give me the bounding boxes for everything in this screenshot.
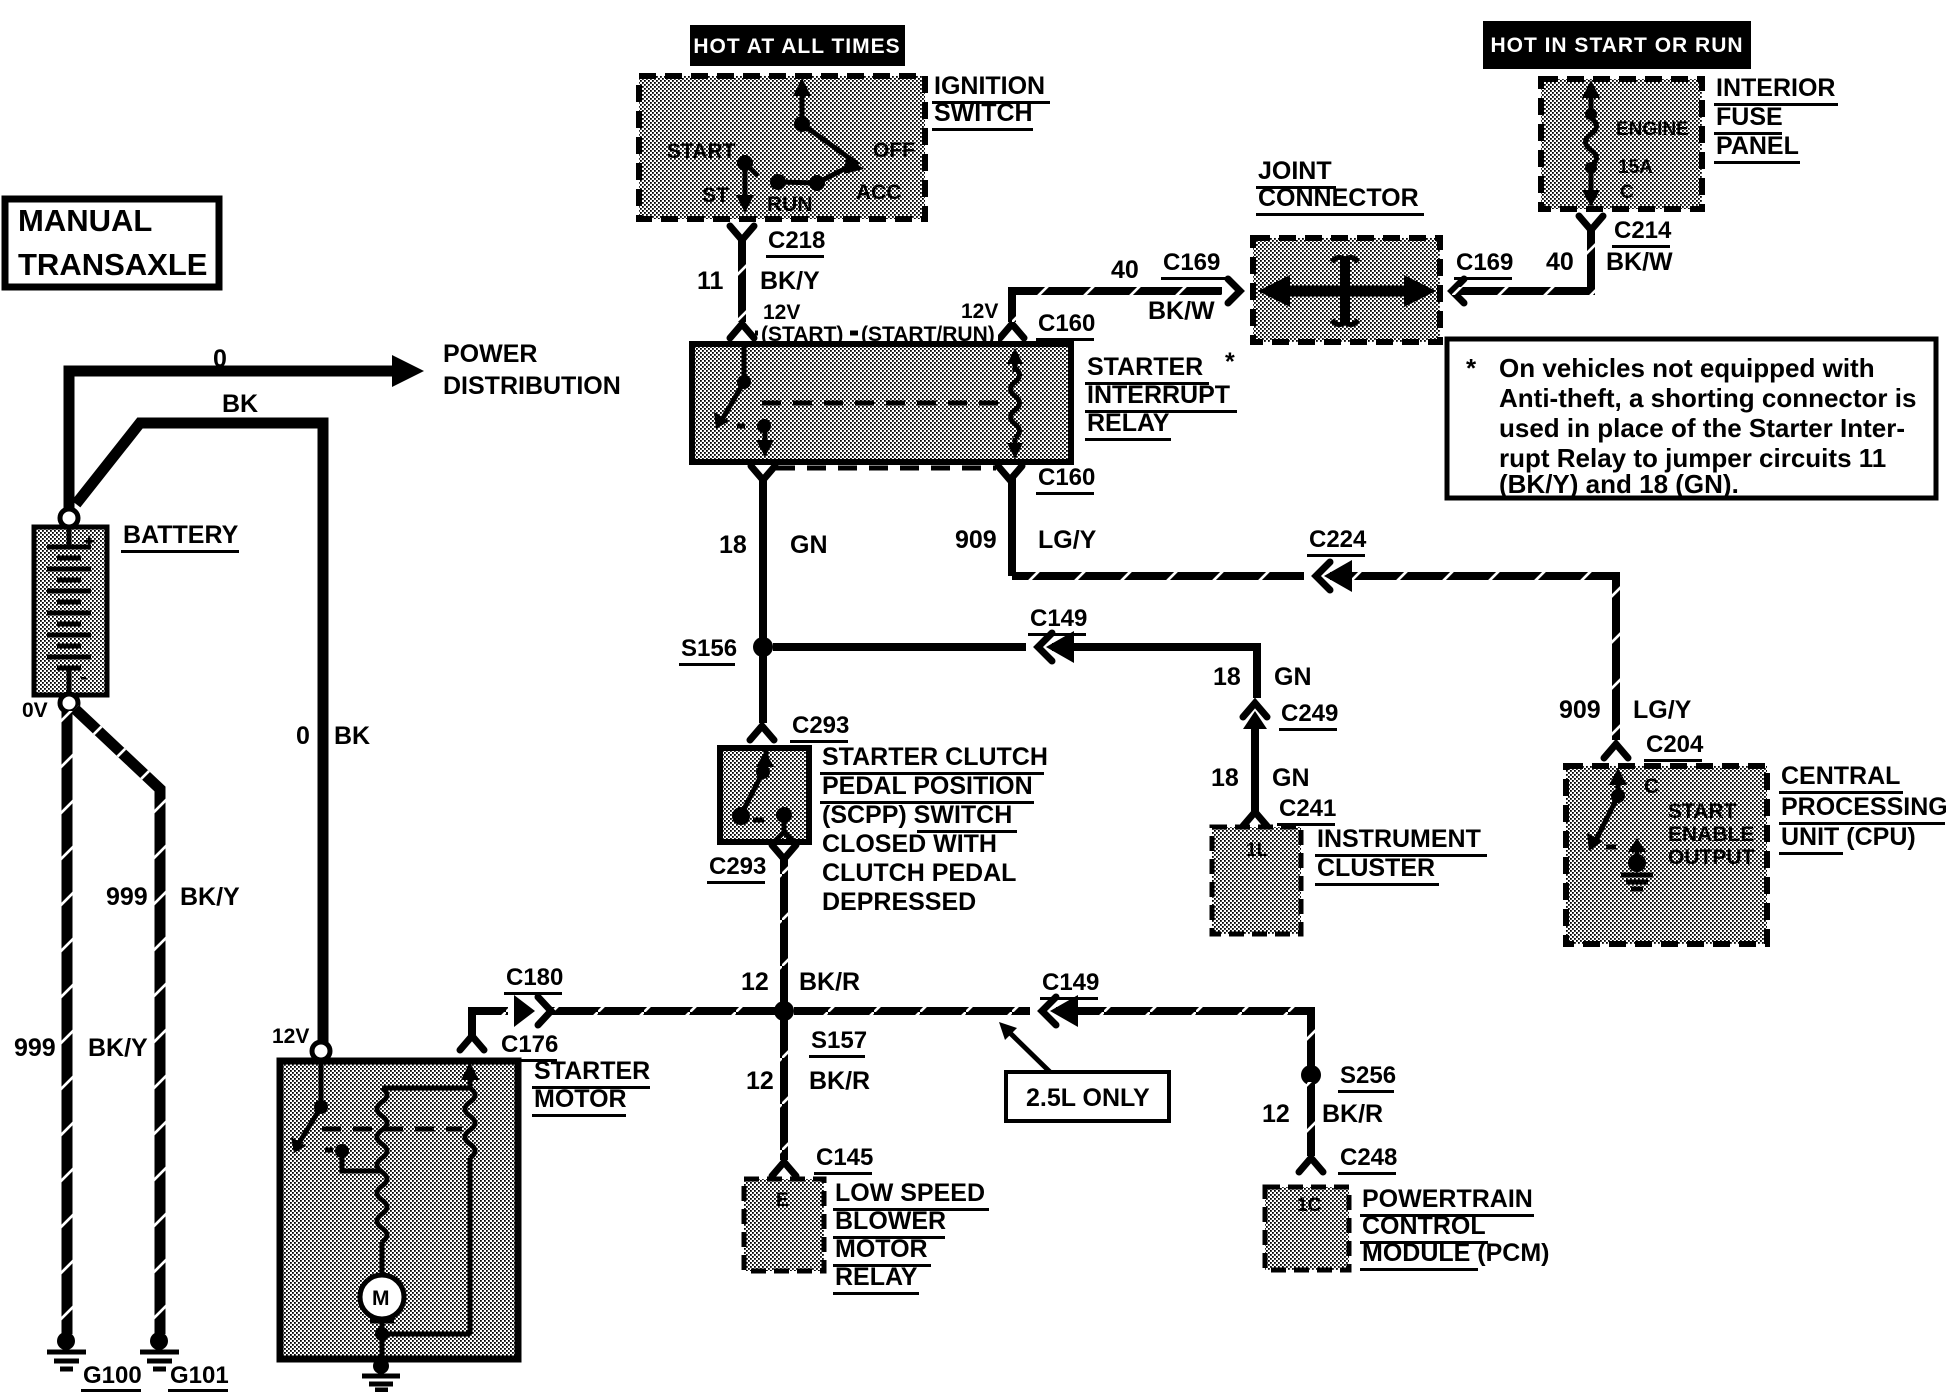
label S156 <box>679 635 737 666</box>
label wire 0 BK (starter feed) <box>296 722 370 750</box>
svg-text:12: 12 <box>741 968 769 996</box>
svg-text:IGNITION: IGNITION <box>934 72 1045 100</box>
label wire 909 LG/Y (upper) <box>955 526 1097 554</box>
label C293 bottom <box>707 853 766 884</box>
svg-text:S156: S156 <box>681 635 737 662</box>
svg-text:CLUSTER: CLUSTER <box>1317 854 1435 882</box>
connector C160 dashed line top <box>755 331 1000 336</box>
svg-text:0: 0 <box>296 722 310 750</box>
wire 909 LG/Y relay to C224 <box>1012 478 1616 740</box>
interior fuse panel box <box>1541 79 1702 209</box>
starter solenoid switch <box>291 1060 382 1171</box>
label C218 <box>766 227 825 258</box>
connector C160 fork relay top left <box>730 324 754 338</box>
note box <box>1447 339 1936 499</box>
svg-text:STARTER: STARTER <box>1087 353 1203 381</box>
svg-text:LG/Y: LG/Y <box>1038 526 1097 554</box>
svg-text:BK/W: BK/W <box>1148 297 1215 325</box>
starter internal dashed link <box>322 1127 462 1132</box>
joint connector bus bar <box>1258 257 1436 324</box>
svg-text:RELAY: RELAY <box>835 1263 918 1291</box>
svg-text:999: 999 <box>106 883 148 911</box>
label C249 <box>1279 700 1338 731</box>
svg-text:BK/R: BK/R <box>809 1067 870 1095</box>
label C241 <box>1277 795 1336 826</box>
svg-text:CLUTCH PEDAL: CLUTCH PEDAL <box>822 859 1016 887</box>
svg-text:S157: S157 <box>811 1027 867 1054</box>
svg-text:MOTOR: MOTOR <box>534 1085 627 1113</box>
fuse ENGINE 15A <box>1582 80 1689 207</box>
svg-text:RELAY: RELAY <box>1087 409 1170 437</box>
svg-text:C224: C224 <box>1309 526 1367 553</box>
svg-text:E: E <box>776 1190 789 1211</box>
connector C180 <box>508 995 551 1027</box>
svg-text:C248: C248 <box>1340 1144 1397 1171</box>
svg-text:MOTOR: MOTOR <box>835 1235 928 1263</box>
node S157 <box>774 1001 794 1021</box>
label wire 12 BK/R (below S157) <box>746 1067 870 1095</box>
wire 11 BK/Y ignition to relay <box>738 238 746 322</box>
svg-text:12: 12 <box>746 1067 774 1095</box>
header HOT AT ALL TIMES <box>690 25 905 66</box>
svg-text:TRANSAXLE: TRANSAXLE <box>18 247 207 282</box>
svg-text:PANEL: PANEL <box>1716 132 1799 160</box>
svg-text:1L: 1L <box>1246 840 1269 861</box>
wire 999 BK/Y to G100 <box>62 711 73 1334</box>
svg-text:S256: S256 <box>1340 1062 1396 1089</box>
svg-text:STARTER CLUTCH: STARTER CLUTCH <box>822 743 1048 771</box>
svg-text:BATTERY: BATTERY <box>123 521 239 549</box>
wire 12 BK/R SCPP to S157 <box>780 857 788 1004</box>
svg-text:PEDAL POSITION: PEDAL POSITION <box>822 772 1033 800</box>
wire 18 GN relay to S156 <box>759 478 767 723</box>
svg-text:DEPRESSED: DEPRESSED <box>822 888 976 916</box>
starter motor box <box>280 1061 518 1359</box>
starter clutch pedal position switch box <box>720 748 809 842</box>
svg-text:G101: G101 <box>170 1362 229 1389</box>
svg-text:CONNECTOR: CONNECTOR <box>1258 184 1419 212</box>
svg-text:(SCPP) SWITCH: (SCPP) SWITCH <box>822 801 1012 829</box>
svg-text:+: + <box>83 530 95 553</box>
connector C204 fork <box>1604 744 1628 758</box>
svg-text:*: * <box>1225 348 1235 376</box>
label C180 <box>504 964 563 995</box>
label wire 0 BK (power distribution) <box>213 345 258 418</box>
svg-text:POWERTRAIN: POWERTRAIN <box>1362 1185 1533 1213</box>
node starter motor 12V terminal <box>272 1025 330 1060</box>
connector C145 fork <box>772 1162 796 1176</box>
svg-text:18: 18 <box>1211 764 1239 792</box>
svg-text:used in place of the Starter I: used in place of the Starter Inter- <box>1499 413 1905 443</box>
svg-text:POWER: POWER <box>443 340 537 368</box>
svg-text:BK/Y: BK/Y <box>180 883 240 911</box>
svg-text:C145: C145 <box>816 1144 873 1171</box>
svg-text:909: 909 <box>1559 696 1601 724</box>
label C149 (upper) <box>1028 605 1087 636</box>
svg-text:C214: C214 <box>1614 217 1672 244</box>
ground starter motor <box>362 1358 400 1390</box>
wire S157 to S256 <box>794 1011 1311 1066</box>
label INTERIOR FUSE PANEL <box>1714 74 1838 164</box>
connector C160 fork relay top right <box>1000 324 1024 338</box>
svg-text:C160: C160 <box>1038 464 1095 491</box>
svg-text:ACC: ACC <box>856 181 902 204</box>
label 12V (START/RUN) <box>858 300 998 346</box>
label STARTER INTERRUPT RELAY <box>1085 348 1237 441</box>
svg-text:Anti-theft, a shorting connect: Anti-theft, a shorting connector is <box>1499 383 1916 413</box>
svg-text:909: 909 <box>955 526 997 554</box>
svg-text:0V: 0V <box>22 699 48 722</box>
instrument cluster box <box>1212 827 1301 934</box>
connector C293 fork bottom <box>772 845 796 859</box>
label C160 top <box>1036 310 1095 341</box>
label JOINT CONNECTOR <box>1256 157 1424 216</box>
label STARTER CLUTCH PEDAL POSITION (SCPP) SWITCH text <box>820 743 1048 916</box>
label C160 bottom <box>1036 464 1095 495</box>
connector C176 fork <box>460 1036 484 1050</box>
low speed blower motor relay box <box>744 1179 824 1271</box>
label wire 909 LG/Y (lower) <box>1559 696 1692 724</box>
svg-text:CONTROL: CONTROL <box>1362 1212 1486 1240</box>
svg-text:M: M <box>372 1287 390 1310</box>
svg-text:18: 18 <box>719 531 747 559</box>
svg-text:ENGINE: ENGINE <box>1616 119 1689 140</box>
label IGNITION SWITCH <box>932 72 1050 131</box>
central processing unit box <box>1566 766 1767 944</box>
svg-text:LG/Y: LG/Y <box>1633 696 1692 724</box>
svg-text:C293: C293 <box>792 712 849 739</box>
svg-text:ENABLE: ENABLE <box>1668 823 1754 846</box>
svg-text:INSTRUMENT: INSTRUMENT <box>1317 825 1481 853</box>
svg-text:12V: 12V <box>961 300 998 323</box>
ignition switch rotor <box>770 124 864 191</box>
wire 12 BK/R S157 to blower relay <box>780 1018 788 1160</box>
ground G100 <box>47 1332 142 1392</box>
ignition switch START contact <box>736 155 758 213</box>
svg-text:C241: C241 <box>1279 795 1336 822</box>
node S156 <box>753 637 773 657</box>
svg-text:OUTPUT: OUTPUT <box>1668 846 1755 869</box>
svg-text:C218: C218 <box>768 227 825 254</box>
svg-text:OFF: OFF <box>873 139 915 162</box>
svg-text:-: - <box>80 666 87 689</box>
label wire 12 BK/R (above S157) <box>741 968 860 996</box>
svg-text:INTERIOR: INTERIOR <box>1716 74 1835 102</box>
svg-text:1C: 1C <box>1297 1195 1322 1216</box>
wire 40 BK/W relay to joint connector <box>1012 291 1222 322</box>
relay internal dashed link <box>762 401 1000 406</box>
wire 18 GN C249 to instrument cluster <box>1251 726 1259 812</box>
svg-text:HOT AT ALL TIMES: HOT AT ALL TIMES <box>693 35 900 58</box>
connector C169 left fork <box>1228 279 1240 303</box>
svg-text:GN: GN <box>790 531 828 559</box>
label wire 11 BK/Y <box>697 267 820 295</box>
label wire 999 BK/Y (left) <box>14 1034 148 1062</box>
connector C160 fork relay bottom left <box>751 466 775 480</box>
connector C160 fork relay bottom right <box>998 466 1022 480</box>
label wire 999 BK/Y (right) <box>106 883 240 911</box>
svg-text:C169: C169 <box>1456 249 1513 276</box>
svg-text:GN: GN <box>1272 764 1310 792</box>
svg-text:C: C <box>1644 775 1659 798</box>
svg-text:BK/R: BK/R <box>799 968 860 996</box>
svg-text:MANUAL: MANUAL <box>18 203 152 238</box>
connector C249 <box>1243 698 1267 729</box>
connector C169 right fork <box>1452 279 1464 303</box>
joint connector box <box>1253 238 1440 342</box>
label C169 left <box>1161 249 1229 280</box>
label POWERTRAIN CONTROL MODULE (PCM) <box>1360 1185 1549 1271</box>
label BATTERY <box>121 521 239 553</box>
svg-text:CENTRAL: CENTRAL <box>1781 762 1900 790</box>
svg-text:BK/Y: BK/Y <box>88 1034 148 1062</box>
label C176 <box>499 1031 558 1062</box>
label wire 18 GN (cluster upper) <box>1213 663 1312 691</box>
title box MANUAL TRANSAXLE <box>5 199 219 287</box>
svg-text:40: 40 <box>1546 248 1574 276</box>
label POWER DISTRIBUTION <box>443 340 621 400</box>
connector C293 fork top <box>750 726 774 740</box>
svg-text:C176: C176 <box>501 1031 558 1058</box>
svg-text:SWITCH: SWITCH <box>934 99 1033 127</box>
SCPP switch contact <box>732 750 793 841</box>
svg-text:C169: C169 <box>1163 249 1220 276</box>
label S157 <box>809 1027 867 1058</box>
label wire 18 GN (cluster lower) <box>1211 764 1310 792</box>
svg-text:C: C <box>1620 182 1634 203</box>
label C204 <box>1644 731 1704 762</box>
starter motor M <box>360 1275 470 1362</box>
svg-text:C149: C149 <box>1042 969 1099 996</box>
label wire 40 (left) <box>1111 256 1215 325</box>
svg-text:12V: 12V <box>763 301 800 324</box>
svg-text:MODULE (PCM): MODULE (PCM) <box>1362 1239 1549 1267</box>
label C149 (lower) <box>1040 969 1099 1000</box>
relay switch contact <box>714 347 774 457</box>
ground CPU internal <box>1621 875 1653 889</box>
svg-text:BK: BK <box>222 390 258 418</box>
svg-text:BK/W: BK/W <box>1606 248 1673 276</box>
relay coil <box>1007 348 1023 459</box>
wire 12 BK/R S256 to PCM <box>1307 1082 1315 1156</box>
svg-text:C204: C204 <box>1646 731 1704 758</box>
svg-text:12V: 12V <box>272 1025 309 1048</box>
svg-text:C293: C293 <box>709 853 766 880</box>
svg-text:START: START <box>667 140 736 163</box>
label wire 18 GN (upper) <box>719 531 828 559</box>
svg-text:BLOWER: BLOWER <box>835 1207 946 1235</box>
svg-text:UNIT (CPU): UNIT (CPU) <box>1781 823 1916 851</box>
svg-text:CLOSED WITH: CLOSED WITH <box>822 830 997 858</box>
arrow to power distribution <box>392 355 424 387</box>
label C248 <box>1338 1144 1397 1175</box>
svg-text:INTERRUPT: INTERRUPT <box>1087 381 1230 409</box>
label START ENABLE OUTPUT <box>1668 800 1755 869</box>
label CENTRAL PROCESSING UNIT (CPU) <box>1779 762 1946 855</box>
svg-text:ST: ST <box>702 184 729 207</box>
ignition switch feed arrow <box>793 78 811 132</box>
header HOT IN START OR RUN <box>1483 21 1751 69</box>
svg-text:BK/R: BK/R <box>1322 1100 1383 1128</box>
connector C149 on S157 wire <box>1030 995 1078 1027</box>
svg-text:999: 999 <box>14 1034 56 1062</box>
label 2.5L ONLY with arrow <box>999 1022 1169 1121</box>
connector C214 fork <box>1579 216 1603 230</box>
svg-text:FUSE: FUSE <box>1716 103 1783 131</box>
label C214 <box>1612 217 1672 248</box>
svg-text:0: 0 <box>213 345 227 373</box>
svg-text:15A: 15A <box>1618 157 1653 178</box>
svg-text:C249: C249 <box>1281 700 1338 727</box>
wire battery positive to power distribution <box>69 371 396 511</box>
label LOW SPEED BLOWER MOTOR RELAY <box>833 1179 989 1295</box>
starter pull-in winding <box>377 1088 387 1276</box>
wire 40 BK/W joint connector to fuse panel <box>1452 228 1591 291</box>
label ignition positions <box>667 139 915 216</box>
label C224 <box>1307 526 1367 557</box>
svg-text:C160: C160 <box>1038 310 1095 337</box>
label C145 <box>814 1144 873 1175</box>
label S256 <box>1338 1062 1396 1093</box>
svg-text:11: 11 <box>697 267 724 295</box>
wire battery to starter motor 0 BK <box>76 423 323 1044</box>
connector C248 fork <box>1299 1158 1323 1172</box>
CPU start enable switch <box>1587 768 1659 872</box>
svg-text:PROCESSING: PROCESSING <box>1781 793 1946 821</box>
svg-text:G100: G100 <box>83 1362 142 1389</box>
connector C160 dashed line bottom <box>776 466 996 471</box>
svg-text:START: START <box>1668 800 1737 823</box>
wire C176 to S157 <box>472 1011 784 1040</box>
connector C241 fork <box>1243 812 1267 826</box>
svg-text:BK: BK <box>334 722 370 750</box>
wire S156 to instrument cluster <box>773 647 1257 700</box>
svg-text:BK/Y: BK/Y <box>760 267 820 295</box>
svg-text:18: 18 <box>1213 663 1241 691</box>
powertrain control module box <box>1265 1187 1349 1270</box>
svg-text:On vehicles not equipped with: On vehicles not equipped with <box>1499 353 1875 383</box>
svg-text:GN: GN <box>1274 663 1312 691</box>
connector C224 <box>1304 560 1352 592</box>
svg-text:JOINT: JOINT <box>1258 157 1332 185</box>
connector C218 fork <box>730 226 754 240</box>
svg-text:C180: C180 <box>506 964 563 991</box>
node battery positive terminal <box>60 509 78 527</box>
label wire 12 BK/R (right) <box>1262 1100 1383 1128</box>
svg-text:LOW SPEED: LOW SPEED <box>835 1179 985 1207</box>
label C169 right <box>1454 249 1513 280</box>
node S256 <box>1301 1065 1321 1085</box>
starter interrupt relay box <box>692 344 1071 462</box>
svg-text:DISTRIBUTION: DISTRIBUTION <box>443 372 621 400</box>
battery <box>34 527 107 695</box>
ground G101 <box>140 1332 229 1392</box>
node battery negative terminal 0V <box>22 694 78 722</box>
svg-text:C149: C149 <box>1030 605 1087 632</box>
svg-text:2.5L ONLY: 2.5L ONLY <box>1026 1084 1150 1112</box>
wire 999 BK/Y to G101 <box>75 709 160 1334</box>
label wire 40 BK/W (right) <box>1546 248 1673 276</box>
svg-text:40: 40 <box>1111 256 1139 284</box>
svg-text:*: * <box>1466 353 1477 383</box>
connector C149 on S156 wire <box>1026 631 1074 663</box>
svg-text:RUN: RUN <box>767 193 813 216</box>
ignition switch box <box>639 76 925 219</box>
label 12V (START) <box>758 300 850 346</box>
starter hold-in winding <box>382 1062 479 1334</box>
label STARTER MOTOR <box>532 1057 650 1117</box>
svg-text:HOT IN START OR RUN: HOT IN START OR RUN <box>1490 34 1743 57</box>
label INSTRUMENT CLUSTER <box>1315 825 1487 886</box>
svg-text:(BK/Y) and 18 (GN).: (BK/Y) and 18 (GN). <box>1499 469 1739 499</box>
svg-text:12: 12 <box>1262 1100 1290 1128</box>
label C293 top <box>790 712 849 743</box>
